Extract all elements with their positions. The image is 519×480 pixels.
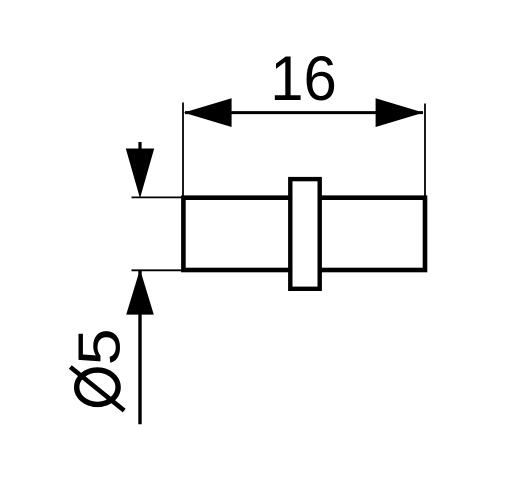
- dimension line 16: [185, 111, 423, 114]
- svg-text:5: 5: [67, 328, 133, 365]
- extension line bottom (diameter dim): [132, 269, 187, 271]
- svg-text:16: 16: [270, 44, 337, 115]
- arrowhead left: [184, 98, 232, 127]
- arrowhead up: [126, 269, 154, 314]
- dimension line upper segment: [138, 142, 141, 150]
- extension line left (16 dim): [182, 103, 184, 198]
- arrowhead down: [126, 149, 154, 199]
- dimension line lower segment: [138, 271, 141, 424]
- arrowhead right: [376, 98, 424, 127]
- dimension text diameter symbol: [77, 370, 118, 404]
- extension line right (16 dim): [424, 104, 426, 198]
- pin body (cylinder side view): [183, 198, 425, 270]
- collar flange: [290, 179, 319, 289]
- extension line top (diameter dim): [132, 196, 187, 198]
